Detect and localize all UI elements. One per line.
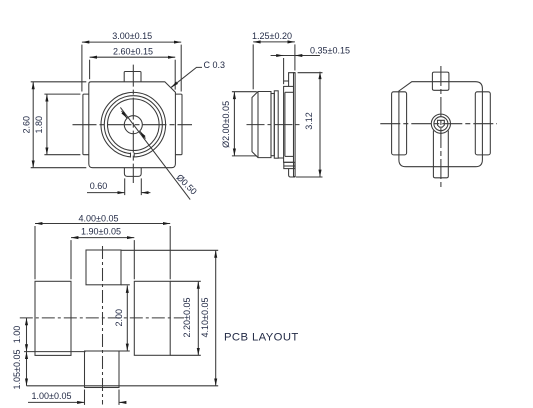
body outline U1 top view <box>89 82 176 168</box>
svg-text:2.00: 2.00 <box>114 309 124 327</box>
bottom tab <box>124 168 141 177</box>
shell outer circle <box>101 92 166 157</box>
dim 4.10 ext top <box>121 249 218 251</box>
svg-text:Ø2.00±0.05: Ø2.00±0.05 <box>221 101 231 148</box>
body block inner line vertical <box>284 92 286 156</box>
right tab <box>175 94 182 155</box>
dim 3.12 ext top <box>298 72 323 74</box>
dim 0.60 ext left <box>124 178 126 195</box>
groove ring <box>271 94 274 156</box>
svg-text:4.00±0.05: 4.00±0.05 <box>79 213 119 223</box>
dim 2.60h ext left <box>89 60 91 79</box>
svg-text:2.60±0.15: 2.60±0.15 <box>113 46 153 56</box>
bottom step block <box>284 162 295 168</box>
dim 0.35 arrow left <box>277 55 284 57</box>
dim 1.00b line left <box>28 401 85 403</box>
bottom step mid line <box>284 165 295 167</box>
barrel outline <box>252 92 271 158</box>
washer ring <box>274 91 278 158</box>
pcb centerline vertical <box>102 246 104 405</box>
dim 2.00 ext bottom <box>119 350 130 352</box>
left mount pad <box>392 92 407 155</box>
dim 3.00 line <box>82 41 181 43</box>
centerline horizontal view1 <box>73 124 193 126</box>
svg-text:1.05±0.05: 1.05±0.05 <box>12 350 22 390</box>
body outline bottom view <box>399 82 483 167</box>
dim 2.60v ext top <box>31 81 87 83</box>
bottom contact leg <box>433 131 448 178</box>
top mount pad <box>432 72 449 90</box>
svg-text:C 0.3: C 0.3 <box>204 60 226 70</box>
pcb top pad <box>86 250 121 285</box>
dim 2.20 line <box>197 281 199 355</box>
chamfer leader C0.3 <box>171 67 202 87</box>
svg-text:2.60: 2.60 <box>22 116 32 134</box>
dim 2.60v ext bottom <box>31 167 87 169</box>
dim 0.35 ext <box>283 58 285 84</box>
svg-text:3.00±0.15: 3.00±0.15 <box>112 31 152 41</box>
right mount pad <box>475 92 490 155</box>
bottom leg <box>289 169 296 177</box>
centerline vertical view1 <box>132 65 134 183</box>
top leg <box>289 73 296 87</box>
mount plate <box>294 73 296 177</box>
dim 2.60h line <box>90 56 176 58</box>
dim 2.20 ext top <box>170 280 201 282</box>
dim 3.00 ext left <box>81 45 83 92</box>
dim 1.00v line <box>26 318 28 352</box>
dim 2.00 ext top <box>121 284 130 286</box>
svg-text:1.80: 1.80 <box>34 116 44 134</box>
dim 1.00b line right <box>119 401 126 403</box>
dia 0.50 leader line <box>120 107 190 199</box>
center inner circle <box>434 117 448 131</box>
dim 1.80 ext top <box>44 93 80 95</box>
shell slot gap mask <box>131 152 134 159</box>
svg-text:3.12: 3.12 <box>304 112 314 130</box>
dim 2.60v line <box>32 82 34 168</box>
center pin circle <box>124 116 142 134</box>
pcb left pad <box>35 281 71 355</box>
svg-text:PCB LAYOUT: PCB LAYOUT <box>224 332 299 344</box>
centerline horizontal view3 <box>380 123 497 125</box>
dim 0.60 line right part <box>141 192 150 194</box>
svg-text:1.25±0.20: 1.25±0.20 <box>252 31 292 41</box>
center contact square <box>438 120 445 127</box>
shell inner circle <box>104 96 162 154</box>
dim 1.05 ext mid <box>24 351 86 353</box>
dia 0.50 arrow upper <box>122 111 128 118</box>
pcb right pad <box>134 281 170 355</box>
svg-text:2.20±0.05: 2.20±0.05 <box>182 298 192 338</box>
top leg step <box>284 80 289 82</box>
svg-text:4.10±0.05: 4.10±0.05 <box>200 298 210 338</box>
shell slot cap left <box>130 153 132 158</box>
dim 0.35 arrow right <box>295 55 302 57</box>
dim 2.00 line <box>126 286 128 352</box>
dim dia2.00 ext top <box>232 91 257 93</box>
dim 1.25 ext left <box>252 44 254 89</box>
dim 4.00 ext left <box>34 226 36 279</box>
centerline horizontal view2 <box>247 124 303 126</box>
svg-text:1.00±0.05: 1.00±0.05 <box>32 391 72 401</box>
neck bottom line <box>278 157 283 159</box>
dim 1.25 line <box>253 41 295 43</box>
svg-text:0.60: 0.60 <box>90 181 108 191</box>
top tab <box>124 72 141 82</box>
body block inner line top <box>285 91 294 93</box>
dim 1.00b ext left <box>84 390 86 405</box>
dim 1.25 ext right <box>294 44 296 70</box>
barrel chamfer line <box>257 92 259 158</box>
body block side <box>284 86 294 162</box>
dim 1.80 line <box>46 94 48 155</box>
dim dia2.00 line <box>233 92 235 156</box>
dim 1.05 line <box>26 352 28 386</box>
dim 2.60h ext right <box>174 60 176 90</box>
centerline vertical view3 <box>440 66 442 188</box>
left tab <box>83 94 89 155</box>
dim 1.80 ext bottom <box>44 154 80 156</box>
center outer circle <box>431 114 450 133</box>
svg-text:0.35±0.15: 0.35±0.15 <box>310 45 350 55</box>
dim 3.12 line <box>319 72 321 177</box>
shell slot cap right <box>133 153 135 158</box>
body block inner line bottom <box>285 155 294 157</box>
dia 0.50 arrow lower <box>140 131 146 138</box>
dim 2.20 ext bottom <box>170 354 201 356</box>
pcb centerline horizontal <box>20 317 184 319</box>
dim 4.10 ext bottom <box>27 385 219 387</box>
dim 4.00 line <box>35 223 170 225</box>
dim 0.35 line <box>271 55 320 57</box>
dim dia2.00 ext bottom <box>232 155 257 157</box>
dim 1.00b ext right <box>118 390 120 405</box>
dim 4.10 line <box>215 250 217 385</box>
dim 1.90 line <box>71 237 134 239</box>
dim 0.60 line left part <box>87 192 125 194</box>
dim 4.00 ext right <box>169 226 171 279</box>
dim 1.90 ext left <box>70 240 72 279</box>
svg-text:1.90±0.05: 1.90±0.05 <box>81 227 121 237</box>
svg-text:1.00: 1.00 <box>12 326 22 344</box>
pcb bottom pad <box>85 351 120 388</box>
dim 0.60 ext right <box>140 178 142 195</box>
socket bore circle <box>108 99 160 151</box>
dim 1.90 ext right <box>133 240 135 279</box>
dim 3.12 ext bottom <box>296 176 323 178</box>
dim 3.00 ext right <box>180 45 182 92</box>
